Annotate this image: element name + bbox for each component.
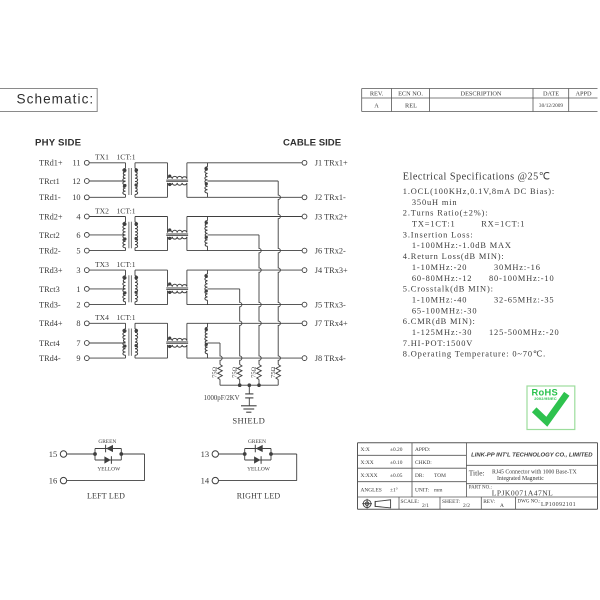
svg-text:TRct3: TRct3 (39, 285, 60, 294)
svg-text:RJ45 Connector with 1000 Base-: RJ45 Connector with 1000 Base-TX (492, 470, 578, 476)
svg-text:1: 1 (76, 285, 80, 294)
svg-text:2002/95/EC: 2002/95/EC (534, 396, 557, 401)
resistor R3 75ohm (251, 365, 262, 386)
label TX1 1CT:1 (95, 153, 136, 162)
svg-text:TX3: TX3 (95, 260, 109, 269)
svg-text:DWG NO.:: DWG NO.: (518, 500, 541, 505)
svg-text:60-80MHz:-12: 60-80MHz:-12 (412, 274, 472, 283)
wire TX2 output rails (187, 217, 302, 251)
svg-text:J3 TRx2+: J3 TRx2+ (315, 212, 348, 221)
svg-text:8: 8 (76, 319, 80, 328)
svg-text:SCALE:: SCALE: (401, 499, 420, 505)
wire TX1 output rails (187, 163, 302, 198)
svg-text:±0.05: ±0.05 (390, 473, 403, 479)
wire LEFT LED loop (67, 449, 145, 481)
common-mode choke TX1 (166, 163, 188, 198)
svg-text:65-100MHz:-30: 65-100MHz:-30 (412, 306, 477, 315)
svg-text:A: A (374, 103, 379, 110)
svg-text:±0.10: ±0.10 (390, 460, 403, 466)
wire termination bus (220, 384, 278, 386)
svg-text:J7 TRx4+: J7 TRx4+ (315, 319, 348, 328)
svg-text:6.CMR(dB MIN):: 6.CMR(dB MIN): (403, 317, 476, 326)
svg-text:6: 6 (76, 231, 80, 240)
svg-text:TRd2+: TRd2+ (39, 212, 63, 221)
svg-text:PART NO.:: PART NO.: (469, 486, 492, 491)
LED yellow (RIGHT LED) (247, 456, 271, 472)
label TX2 1CT:1 (95, 206, 136, 215)
svg-text:30MHz:-16: 30MHz:-16 (494, 263, 541, 272)
common-mode choke TX4 (166, 323, 188, 358)
capacitor C1 1000pF/2KV (204, 385, 254, 406)
transformer TX3 secondary winding (135, 270, 138, 305)
svg-text:J2 TRx1-: J2 TRx1- (315, 193, 346, 202)
pin 15 terminal (49, 449, 67, 459)
svg-text:RIGHT LED: RIGHT LED (237, 491, 281, 500)
LED green (RIGHT LED) (248, 439, 266, 453)
common-mode choke TX3 (166, 270, 188, 305)
svg-text:REV.: REV. (370, 90, 384, 97)
svg-text:TX4: TX4 (95, 313, 109, 322)
terminal J8 TRx4- (302, 354, 346, 363)
electrical specifications text (403, 172, 560, 359)
terminal J2 TRx1- (302, 193, 346, 202)
transformer TX2 core (129, 222, 131, 249)
autotransformer winding TX4 cable side (205, 323, 208, 358)
terminal J4 TRx3+ (302, 266, 348, 275)
channel TX4 pin terminals and labels (39, 319, 89, 363)
autotransformer winding TX3 cable side (205, 270, 208, 305)
wire termination feed x=220 (hops over rails) (220, 343, 222, 365)
svg-text:1-10MHz:-40: 1-10MHz:-40 (412, 296, 467, 305)
svg-text:YELLOW: YELLOW (247, 467, 271, 473)
svg-text:10: 10 (72, 193, 80, 202)
svg-text:SHIELD: SHIELD (232, 415, 265, 425)
svg-text:J6 TRx2-: J6 TRx2- (315, 247, 346, 256)
svg-text:REV:: REV: (483, 499, 495, 505)
svg-text:1-100MHz:-1.0dB MAX: 1-100MHz:-1.0dB MAX (412, 241, 512, 250)
transformer TX1 secondary winding (135, 163, 138, 198)
svg-text:X:XX: X:XX (361, 460, 374, 466)
svg-text:11: 11 (73, 159, 81, 168)
terminal J1 TRx1+ (302, 159, 348, 168)
svg-text:YELLOW: YELLOW (97, 467, 121, 473)
svg-text:2.Turns Ratio(±2%):: 2.Turns Ratio(±2%): (403, 209, 489, 218)
svg-text:5.Crosstalk(dB MIN):: 5.Crosstalk(dB MIN): (403, 285, 494, 294)
svg-text:1CT:1: 1CT:1 (117, 313, 136, 322)
title box "Schematic:" (0, 89, 97, 112)
wire termination feed x=259 (hops over rails) (259, 235, 261, 365)
svg-text:1CT:1: 1CT:1 (117, 260, 136, 269)
svg-text:PHY SIDE: PHY SIDE (35, 137, 82, 148)
svg-text:APPD: APPD (575, 90, 592, 97)
svg-text:mm: mm (434, 487, 443, 493)
svg-text:TRct2: TRct2 (39, 231, 60, 240)
svg-text:UNIT:: UNIT: (415, 487, 430, 493)
svg-text:GREEN: GREEN (248, 439, 266, 445)
svg-text:TX=1CT:1: TX=1CT:1 (412, 220, 456, 229)
svg-text:TOM: TOM (434, 473, 446, 479)
svg-text:30/12/2009: 30/12/2009 (539, 103, 563, 109)
transformer TX4 core (129, 329, 131, 356)
wire TX3 primary leads (89, 270, 125, 305)
wire TX3 output rails (187, 270, 302, 305)
channel TX3 pin terminals and labels (39, 266, 89, 310)
svg-text:3: 3 (76, 266, 80, 275)
svg-text:±1°: ±1° (390, 486, 398, 493)
svg-text:TX1: TX1 (95, 153, 109, 162)
svg-text:1000pF/2KV: 1000pF/2KV (204, 395, 240, 402)
RoHS compliance logo (527, 386, 575, 430)
svg-text:TRd4+: TRd4+ (39, 319, 63, 328)
pin 16 terminal (49, 476, 67, 486)
svg-text:75Ω: 75Ω (231, 366, 238, 377)
svg-text:16: 16 (49, 476, 58, 486)
title text (469, 469, 578, 483)
svg-text:DATE: DATE (543, 90, 559, 97)
svg-text:9: 9 (76, 354, 80, 363)
wire TX1 primary leads (89, 163, 125, 198)
transformer TX3 core (129, 275, 131, 302)
channel TX2 pin terminals and labels (39, 212, 89, 255)
pin 13 terminal (201, 449, 219, 459)
svg-text:125-500MHz:-20: 125-500MHz:-20 (489, 328, 560, 337)
transformer TX3 primary winding (123, 276, 127, 302)
transformer TX4 secondary winding (135, 323, 138, 358)
common-mode choke TX2 (166, 217, 188, 251)
title block (358, 443, 598, 510)
title block tolerance texts (361, 447, 447, 493)
svg-text:Title:: Title: (469, 469, 485, 478)
svg-text:1-10MHz:-20: 1-10MHz:-20 (412, 263, 467, 272)
svg-text:5: 5 (76, 247, 80, 256)
wire TX4 output rails (187, 323, 302, 358)
svg-text:12: 12 (72, 177, 80, 186)
svg-text:APPD:: APPD: (415, 447, 431, 453)
ground SHIELD (232, 406, 265, 426)
svg-text:75Ω: 75Ω (270, 366, 277, 377)
LED yellow (LEFT LED) (97, 456, 121, 472)
svg-text:LEFT LED: LEFT LED (87, 491, 125, 500)
wire TX4 primary leads (89, 323, 125, 358)
svg-text:J4 TRx3+: J4 TRx3+ (315, 266, 348, 275)
channel TX1 pin terminals and labels (39, 159, 89, 203)
svg-text:3.Insertion Loss:: 3.Insertion Loss: (403, 230, 474, 239)
transformer TX2 secondary winding (135, 217, 138, 251)
svg-text:1CT:1: 1CT:1 (117, 153, 136, 162)
svg-text:TX2: TX2 (95, 206, 109, 215)
svg-text:Integrated Magnetic: Integrated Magnetic (497, 476, 544, 482)
svg-text:TRd3-: TRd3- (39, 301, 61, 310)
label TX4 1CT:1 (95, 313, 136, 322)
transformer TX4 primary winding (123, 329, 127, 355)
svg-text:LPJK0071A47NL: LPJK0071A47NL (492, 488, 554, 497)
wire TX1 center-tap to termination (208, 180, 279, 182)
svg-text:1-125MHz:-30: 1-125MHz:-30 (412, 328, 472, 337)
scale sheet rev dwg texts (401, 499, 577, 509)
svg-text:A: A (500, 503, 504, 509)
svg-text:80-100MHz:-10: 80-100MHz:-10 (489, 274, 554, 283)
wire RIGHT LED loop (219, 449, 297, 481)
svg-text:14: 14 (201, 476, 210, 486)
junction dots on bus (238, 383, 261, 387)
svg-text:8.Operating Temperature: 0~70℃: 8.Operating Temperature: 0~70℃. (403, 350, 546, 359)
resistor R4 75ohm (270, 365, 281, 386)
svg-text:TRct1: TRct1 (39, 177, 60, 186)
svg-text:GREEN: GREEN (98, 439, 116, 445)
svg-text:TRct4: TRct4 (39, 339, 61, 348)
wire TX2 center-tap to termination (208, 234, 260, 236)
wire TX3 secondary to choke (135, 270, 168, 305)
terminal J3 TRx2+ (302, 212, 348, 221)
svg-text:7: 7 (76, 339, 80, 348)
svg-text:TRd1+: TRd1+ (39, 159, 63, 168)
LED green (LEFT LED) (98, 439, 116, 453)
projection symbol (362, 499, 390, 509)
svg-text:DESCRIPTION: DESCRIPTION (461, 90, 502, 97)
autotransformer winding TX1 cable side (205, 163, 208, 198)
svg-text:CABLE SIDE: CABLE SIDE (283, 137, 342, 148)
resistor R2 75ohm (231, 365, 242, 386)
svg-text:CHKD:: CHKD: (415, 460, 432, 466)
terminal J5 TRx3- (302, 301, 346, 310)
svg-text:RX=1CT:1: RX=1CT:1 (481, 220, 525, 229)
svg-text:TRd1-: TRd1- (39, 193, 61, 202)
part number (469, 486, 553, 498)
wire termination feed x=240 (hops over rails) (240, 289, 242, 365)
svg-text:ANGLES: ANGLES (361, 487, 382, 493)
svg-text:Schematic:: Schematic: (17, 92, 95, 107)
svg-text:J8 TRx4-: J8 TRx4- (315, 354, 346, 363)
svg-text:SHEET:: SHEET: (442, 499, 461, 505)
svg-text:REL: REL (405, 103, 417, 110)
svg-text:2: 2 (76, 301, 80, 310)
svg-text:2/2: 2/2 (463, 503, 470, 509)
svg-text:7.HI-POT:1500V: 7.HI-POT:1500V (403, 339, 473, 348)
autotransformer winding TX2 cable side (205, 217, 208, 251)
svg-text:75Ω: 75Ω (212, 366, 219, 377)
svg-text:2/1: 2/1 (422, 503, 429, 509)
svg-text:13: 13 (201, 449, 210, 459)
terminal J7 TRx4+ (302, 319, 348, 328)
wire TX2 secondary to choke (135, 217, 168, 251)
svg-text:J5 TRx3-: J5 TRx3- (315, 301, 346, 310)
svg-text:75Ω: 75Ω (251, 366, 258, 377)
svg-text:DR:: DR: (415, 473, 424, 479)
svg-text:350uH min: 350uH min (412, 198, 458, 207)
wire TX2 primary leads (89, 217, 125, 251)
svg-text:15: 15 (49, 449, 58, 459)
pin 14 terminal (201, 476, 219, 486)
svg-text:Electrical Specifications @25℃: Electrical Specifications @25℃ (403, 172, 551, 183)
wire TX4 secondary to choke (135, 323, 168, 358)
svg-text:32-65MHz:-35: 32-65MHz:-35 (494, 296, 554, 305)
svg-text:4.Return Loss(dB MIN):: 4.Return Loss(dB MIN): (403, 252, 505, 261)
transformer TX1 primary winding (123, 169, 127, 195)
svg-text:X:XXX: X:XXX (361, 473, 378, 479)
transformer TX1 core (129, 168, 131, 195)
svg-text:ECN NO.: ECN NO. (398, 90, 423, 97)
revision table (362, 89, 598, 112)
wire TX1 secondary to choke (135, 163, 168, 198)
svg-text:J1 TRx1+: J1 TRx1+ (315, 159, 348, 168)
svg-text:LP10092101: LP10092101 (541, 502, 576, 508)
svg-text:LINK-PP INT'L TECHNOLOGY CO.,: LINK-PP INT'L TECHNOLOGY CO., LIMITED (471, 452, 593, 458)
svg-text:X:X: X:X (361, 447, 370, 453)
wire TX3 center-tap to termination (208, 288, 240, 290)
svg-text:TRd2-: TRd2- (39, 247, 61, 256)
transformer TX2 primary winding (123, 222, 127, 248)
svg-text:TRd3+: TRd3+ (39, 266, 63, 275)
svg-text:TRd4-: TRd4- (39, 354, 61, 363)
label TX3 1CT:1 (95, 260, 136, 269)
svg-text:1CT:1: 1CT:1 (117, 206, 136, 215)
wire termination feed x=278 (hops over rails) (278, 181, 280, 365)
resistor R1 75ohm (212, 365, 223, 386)
svg-text:1.OCL(100KHz,0.1V,8mA DC Bias): 1.OCL(100KHz,0.1V,8mA DC Bias): (403, 187, 555, 196)
terminal J6 TRx2- (302, 247, 346, 256)
wire TX4 center-tap to termination (208, 342, 221, 344)
svg-text:±0.20: ±0.20 (390, 447, 403, 453)
